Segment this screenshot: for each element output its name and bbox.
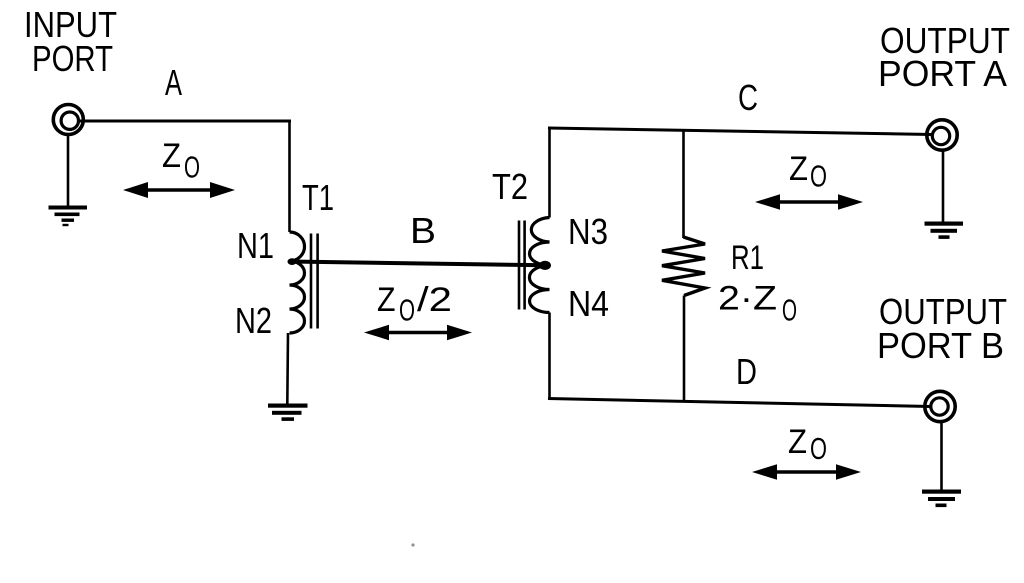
- wire from input port to ground: [67, 135, 70, 206]
- impedance arrow (line D): [752, 464, 861, 479]
- svg-text:O: O: [399, 293, 415, 328]
- output port B connector: [925, 391, 955, 421]
- wire A horizontal: [78, 120, 291, 123]
- impedance arrow (line C): [755, 194, 863, 209]
- transformer T1 core: [311, 234, 318, 329]
- label OUTPUT PORT B: [877, 291, 1007, 366]
- value label Zo (line C): [789, 150, 827, 194]
- value label Zo/2: [377, 281, 452, 328]
- svg-text:R1: R1: [731, 239, 764, 277]
- ground (output port B): [922, 490, 961, 508]
- value label Zo (line A): [162, 137, 200, 185]
- wire R1 top lead: [682, 131, 685, 239]
- svg-text:T2: T2: [492, 166, 528, 207]
- svg-text:O: O: [810, 159, 827, 194]
- svg-text:Z: Z: [162, 137, 181, 175]
- svg-text:C: C: [738, 77, 758, 118]
- wire T1 to ground: [286, 333, 289, 404]
- junction blob (B at T1 tap): [288, 258, 297, 265]
- ground (output port A): [925, 222, 964, 239]
- svg-text:Z: Z: [377, 281, 396, 319]
- svg-text:Z: Z: [789, 150, 808, 188]
- svg-text:O: O: [184, 150, 200, 185]
- svg-text:Z: Z: [788, 423, 807, 461]
- svg-text:PORT B: PORT B: [877, 325, 1004, 366]
- speck artifact: [411, 543, 414, 546]
- wire T2 top lead up to node C: [548, 127, 551, 218]
- svg-text:O: O: [782, 293, 797, 328]
- ground (T1): [268, 404, 308, 421]
- svg-text:PORT: PORT: [32, 38, 113, 79]
- label OUTPUT PORT A: [878, 20, 1010, 94]
- svg-text:/2: /2: [417, 281, 452, 319]
- svg-text:N3: N3: [568, 211, 608, 252]
- svg-text:A: A: [165, 62, 182, 103]
- value label 2·Zo: [718, 280, 797, 328]
- wire port A to ground: [942, 151, 945, 222]
- transformer T1 winding (N1 over N2): [290, 232, 305, 333]
- svg-text:N1: N1: [237, 225, 274, 266]
- output port A connector: [927, 120, 957, 150]
- wire port B to ground: [940, 422, 943, 490]
- transformer T2 core: [519, 221, 525, 310]
- svg-text:PORT A: PORT A: [878, 53, 1007, 94]
- impedance arrow (line A): [123, 182, 235, 198]
- wire D horizontal (T2 to output port B): [548, 399, 931, 407]
- value label Zo (line D): [788, 423, 827, 466]
- resistor R1 zigzag: [662, 237, 705, 296]
- wire C horizontal (T2 to output port A): [548, 128, 932, 135]
- junction dot (B at T2 tap): [539, 261, 551, 270]
- svg-text:T1: T1: [302, 177, 334, 218]
- ground (input port): [49, 206, 88, 227]
- transformer T2 winding (N3 over N4): [529, 218, 549, 313]
- svg-text:N2: N2: [235, 300, 272, 341]
- label INPUT PORT: [24, 4, 117, 79]
- impedance arrow (line B): [364, 325, 472, 340]
- svg-text:D: D: [736, 351, 757, 392]
- wire A vertical to T1: [288, 120, 291, 233]
- input port connector P_IN: [53, 105, 83, 135]
- wire B (T1 tap to T2 tap): [290, 262, 547, 266]
- wire T2 bottom lead down to node D: [548, 313, 551, 401]
- svg-text:O: O: [810, 431, 827, 466]
- svg-text:N4: N4: [568, 283, 609, 324]
- wire R1 bottom lead: [683, 296, 686, 402]
- svg-text:2·Z: 2·Z: [718, 280, 777, 318]
- svg-text:B: B: [410, 210, 436, 251]
